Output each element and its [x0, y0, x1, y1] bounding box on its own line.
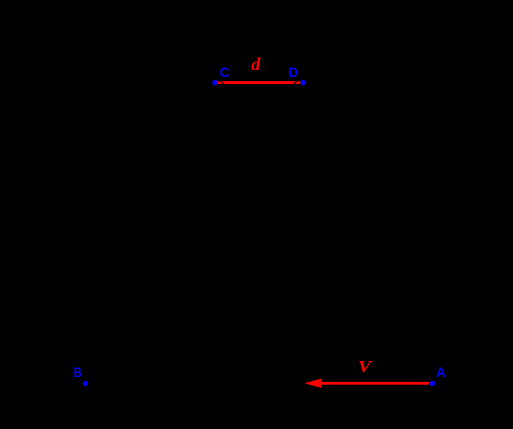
svg-text:B: B [74, 365, 82, 380]
distance arrow left barb notch [220, 81, 224, 84]
svg-text:D: D [288, 65, 298, 80]
distance arrow d shaft between C and D [218, 81, 301, 84]
node A point [430, 381, 435, 386]
distance arrow right barb notch [294, 81, 298, 84]
svg-text:C: C [220, 65, 230, 80]
node D point [301, 80, 306, 85]
node B point [83, 381, 88, 386]
svg-text:A: A [436, 365, 446, 380]
svg-text:V: V [358, 357, 373, 376]
node C point [212, 80, 217, 85]
svg-text:d: d [251, 54, 261, 74]
velocity arrow V shaft [319, 382, 429, 385]
velocity arrow V head [304, 379, 321, 389]
